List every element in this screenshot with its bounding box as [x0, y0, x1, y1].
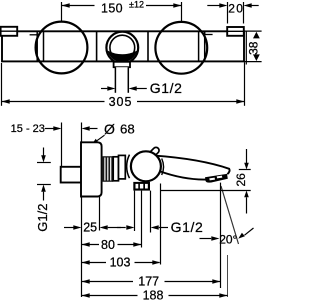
dim 150±12 line left segment	[61, 5, 94, 7]
dim 305 line right segment	[137, 101, 244, 103]
right escutcheon tick	[205, 34, 213, 36]
dim 20 extension line right	[243, 2, 245, 24]
dim G1/2 (top view) left tail	[101, 88, 107, 90]
spout collar	[114, 62, 130, 67]
right end cap	[227, 27, 244, 36]
dim G1/2 supply tick top	[37, 162, 51, 164]
dim 177 arrow left	[82, 279, 90, 284]
extension line spout outlet	[220, 183, 222, 288]
hose nipple stub fill	[115, 67, 128, 93]
thermostat body slab	[119, 155, 126, 179]
dim 150±12 arrow left	[62, 3, 70, 8]
spout escutcheon outer circle	[106, 32, 138, 64]
dim 305 extension line right	[244, 63, 246, 106]
dim 305 arrow right	[236, 99, 244, 104]
dim 38 extension line vertical	[245, 31, 247, 65]
dim 80 line left	[82, 244, 100, 246]
diverter slot 2	[140, 184, 143, 189]
spout outlet (aerator)	[205, 174, 228, 183]
dim 26 arrow down	[244, 163, 249, 170]
aerator slot 2	[217, 176, 223, 179]
dim G1/2 arrow right	[129, 86, 137, 91]
diverter slot 1	[136, 184, 139, 189]
dim G1/2 hose left tail	[117, 227, 126, 229]
dim 188 line right	[169, 295, 228, 297]
svg-text:38: 38	[247, 41, 261, 55]
nut knurl stripe 1	[104, 158, 106, 181]
extension line escutcheon front	[99, 197, 101, 231]
nut knurl stripe 3	[110, 158, 112, 181]
extension line handle right	[160, 184, 162, 265]
dim 177 arrow right	[212, 279, 220, 284]
collar between nut and body	[113, 157, 118, 181]
svg-text:188: 188	[143, 289, 164, 300]
svg-text:Ø: Ø	[104, 121, 115, 137]
extension line hose axis	[141, 191, 143, 248]
dim 150±12 extension line left	[61, 2, 63, 21]
handle thumb tab	[152, 150, 156, 154]
diverter slot 3	[145, 184, 148, 189]
dim 305 arrow left	[2, 99, 10, 104]
dim 188 arrow right	[219, 293, 227, 298]
supply pipe	[61, 167, 82, 183]
aerator slot 1	[209, 178, 215, 181]
dim 80 arrow left	[82, 242, 90, 247]
right escutcheon edge line 2	[204, 31, 206, 61]
dim 26 lower line	[246, 197, 248, 213]
hose nipple stub right edge	[127, 67, 129, 93]
bath spout bottom edge	[159, 171, 207, 180]
svg-text:±12: ±12	[129, 0, 144, 10]
dim 15-23 right tail	[90, 128, 98, 130]
extension line spout end (gray)	[227, 255, 229, 297]
handle skirt arc	[127, 155, 130, 179]
dim 38 extension tick bottom	[244, 61, 262, 63]
left end cap	[1, 27, 18, 36]
svg-text:177: 177	[138, 274, 159, 288]
pipe end line	[61, 123, 63, 168]
center section edge right	[147, 31, 149, 61]
dim 150±12 arrow right	[173, 3, 181, 8]
hose nipple stub left edge	[114, 67, 116, 93]
dim 38 arrow down	[253, 54, 260, 61]
extension line diverter right	[150, 191, 152, 233]
svg-text:305: 305	[109, 95, 133, 109]
dim 26 tick bottom	[161, 190, 251, 192]
dim 150±12 line right segment	[146, 5, 182, 7]
dim 20 right tail	[251, 5, 258, 7]
Ø68 leader line	[94, 135, 105, 143]
handle right skirt arc	[162, 159, 164, 176]
svg-text:80: 80	[101, 238, 115, 252]
dim 26 upper line	[246, 149, 248, 164]
dim 103 line right	[135, 262, 160, 264]
dim 188 line left	[82, 295, 138, 297]
dim 25 left arrow tail	[64, 227, 74, 229]
dim G1/2 hose arrow right-pointing	[126, 225, 134, 230]
dim G1/2 supply arrow up	[41, 185, 46, 192]
dim 80 line right	[118, 244, 142, 246]
bath spout fill	[154, 156, 230, 183]
dim 20° arrow right-pointing	[200, 238, 212, 240]
svg-text:G1/2: G1/2	[35, 204, 50, 232]
dim 150±12 extension line right	[181, 2, 183, 21]
dim 25 arrow left-pointing	[100, 225, 108, 230]
dim 305 line left segment	[2, 101, 105, 103]
handle knob circle	[131, 151, 161, 181]
union nut (knurled)	[102, 156, 114, 182]
wall escutcheon	[81, 142, 102, 196]
dim G1/2 right tail	[137, 88, 147, 90]
dim 26 arrow up	[244, 191, 249, 198]
dim 20 arrow left	[219, 3, 227, 8]
mixer body bar	[2, 31, 244, 61]
dim 177 line right	[165, 281, 221, 283]
dim 305 extension line left	[1, 63, 3, 106]
spout inner circle	[110, 35, 135, 60]
right handle circle	[155, 22, 207, 74]
dim 20° arrow to stream	[245, 228, 254, 235]
svg-text:68: 68	[120, 122, 135, 137]
dim 15-23 arrow right-pointing	[53, 126, 61, 131]
svg-text:20: 20	[228, 1, 244, 15]
left end cap midline	[1, 30, 18, 32]
dim 188 arrow left	[82, 293, 90, 298]
wall line	[81, 123, 83, 298]
dim 15-23 tail	[45, 128, 54, 130]
nut knurl stripe 2	[107, 158, 109, 181]
left escutcheon edge line 1	[36, 31, 38, 61]
water stream line	[221, 186, 239, 244]
dim 15-23 arrow left-pointing	[82, 126, 90, 131]
svg-text:25: 25	[83, 220, 97, 234]
dim G1/2 hose right tail	[159, 227, 168, 229]
dim 20 extension line left	[227, 2, 229, 24]
dim 103 line left	[82, 262, 107, 264]
dim 25 right arrow tail	[108, 227, 121, 229]
Ø68 leader arrowhead	[92, 139, 99, 145]
right end cap midline	[227, 30, 244, 32]
svg-text:20°: 20°	[219, 232, 237, 246]
dim 25 arrow right-pointing	[73, 225, 81, 230]
spout shading crescent	[108, 51, 138, 63]
diverter / hose connection knurled	[133, 182, 150, 191]
dim 26 tick top	[239, 169, 251, 171]
dim 38 extension tick top	[244, 30, 262, 32]
dim 103 arrow left	[82, 260, 90, 265]
dim 20 arrow right	[244, 3, 252, 8]
dim 20 left tail	[207, 5, 220, 7]
svg-text:103: 103	[110, 256, 131, 270]
svg-text:G1/2: G1/2	[171, 219, 204, 235]
dim 80 arrow right	[133, 242, 141, 247]
svg-text:150: 150	[101, 1, 123, 15]
dim G1/2 arrow left	[107, 86, 115, 91]
svg-text:G1/2: G1/2	[150, 80, 183, 96]
dim G1/2 hose arrow left-pointing	[151, 225, 159, 230]
dim G1/2 supply lower line	[43, 192, 45, 201]
bath spout top edge	[154, 156, 230, 175]
center section edge left	[96, 31, 98, 61]
svg-text:15 - 23: 15 - 23	[11, 123, 45, 135]
dim 38 arrow up	[253, 32, 260, 39]
dim G1/2 supply tick bottom	[37, 184, 51, 186]
right escutcheon edge line 1	[198, 31, 200, 61]
dim G1/2 supply arrow down	[41, 155, 46, 162]
left escutcheon edge line 2	[43, 31, 45, 61]
left escutcheon tick	[30, 34, 38, 36]
dim 103 arrow right	[152, 260, 160, 265]
svg-text:26: 26	[234, 173, 248, 187]
left handle circle	[36, 22, 88, 74]
dim 177 line left	[82, 281, 134, 283]
dim G1/2 supply upper line	[43, 148, 45, 156]
extension line diverter left	[134, 191, 136, 231]
